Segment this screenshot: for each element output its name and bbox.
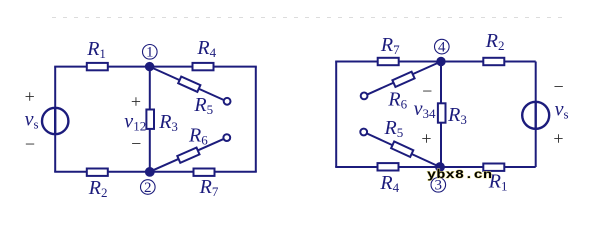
resistor R6 (left loop) (177, 148, 199, 163)
node 4 junction dot (437, 58, 444, 65)
wire: right loop, left edge (335, 62, 337, 168)
svg-text:R2: R2 (88, 177, 108, 200)
node 3 junction dot (436, 163, 444, 171)
svg-text:R7: R7 (199, 176, 219, 199)
resistor R7 (left loop) (194, 169, 215, 176)
svg-text:vs: vs (555, 99, 569, 122)
voltage source v_s (left) (42, 108, 68, 134)
wire: left loop, bottom edge (54, 171, 257, 173)
svg-text:R6: R6 (188, 125, 208, 148)
node label circle 1 (143, 45, 158, 60)
svg-text:vs: vs (25, 109, 39, 132)
svg-text:2: 2 (144, 180, 152, 196)
node 2 junction dot (146, 168, 154, 176)
svg-text:R5: R5 (193, 94, 213, 117)
terminal of R5 (right loop) (360, 129, 367, 136)
terminal of R5 (left loop) (224, 98, 231, 105)
svg-text:1: 1 (146, 45, 154, 61)
resistor R6 (right loop) (392, 72, 414, 87)
svg-text:+: + (131, 92, 141, 112)
wire: right loop, bottom edge (335, 166, 536, 168)
terminal of R6 (right loop) (361, 93, 368, 100)
svg-text:−: − (25, 134, 35, 154)
resistor R5 (right loop) (391, 141, 413, 156)
resistor R1 (87, 63, 108, 70)
svg-text:R6: R6 (387, 88, 407, 111)
svg-text:R5: R5 (384, 117, 404, 140)
voltage source v_s (right) (522, 102, 549, 129)
resistor R3 (right loop) (438, 103, 446, 122)
node label circle 3 (431, 178, 446, 193)
svg-text:R3: R3 (447, 104, 467, 127)
wire: left loop, left edge (54, 67, 56, 172)
wire: left loop, right edge (255, 67, 257, 172)
svg-text:R4: R4 (196, 37, 216, 60)
svg-text:+: + (25, 86, 35, 106)
svg-text:−: − (554, 77, 564, 97)
wire: R3 branch (node 4 to node 3) (440, 62, 442, 168)
resistor R4 (right loop) (378, 163, 399, 170)
node label circle 4 (435, 39, 450, 54)
wire: left loop, top edge (54, 66, 257, 68)
wire: R6 branch from node 4 (364, 62, 441, 96)
node label circle 2 (141, 180, 156, 195)
node 1 junction dot (146, 63, 153, 70)
wire: right loop, top edge (335, 61, 536, 63)
svg-text:4: 4 (438, 40, 446, 56)
resistor R5 (left loop) (178, 77, 200, 92)
terminal of R6 (left loop) (223, 134, 230, 141)
wire: R3 branch (node 1 to node 2) (149, 67, 151, 172)
svg-text:R7: R7 (380, 34, 400, 57)
svg-text:v12: v12 (124, 110, 146, 133)
resistor R7 (right loop) (378, 58, 399, 65)
resistor R4 (193, 63, 214, 70)
resistor R1 (right loop) (483, 164, 504, 171)
svg-text:R1: R1 (86, 38, 106, 61)
resistor R2 (87, 169, 108, 176)
wire: right loop, right edge (535, 62, 537, 168)
resistor R3 (left loop) (146, 110, 154, 129)
svg-text:−: − (131, 134, 141, 154)
svg-text:+: + (553, 129, 563, 149)
wire: R5 branch from node 1 (150, 67, 228, 102)
svg-text:+: + (421, 128, 431, 148)
svg-text:R3: R3 (158, 111, 178, 134)
wire: R5 branch from node 3 (364, 132, 440, 167)
svg-text:R4: R4 (379, 172, 399, 195)
svg-text:v34: v34 (414, 98, 436, 121)
faint dotted guide line (scan artifact) (52, 17, 562, 19)
svg-text:−: − (422, 81, 432, 101)
svg-text:ybx8.cn: ybx8.cn (427, 168, 492, 182)
svg-text:R2: R2 (485, 30, 505, 53)
resistor R2 (right loop) (483, 58, 504, 65)
wire: R6 branch from node 2 (150, 138, 227, 172)
